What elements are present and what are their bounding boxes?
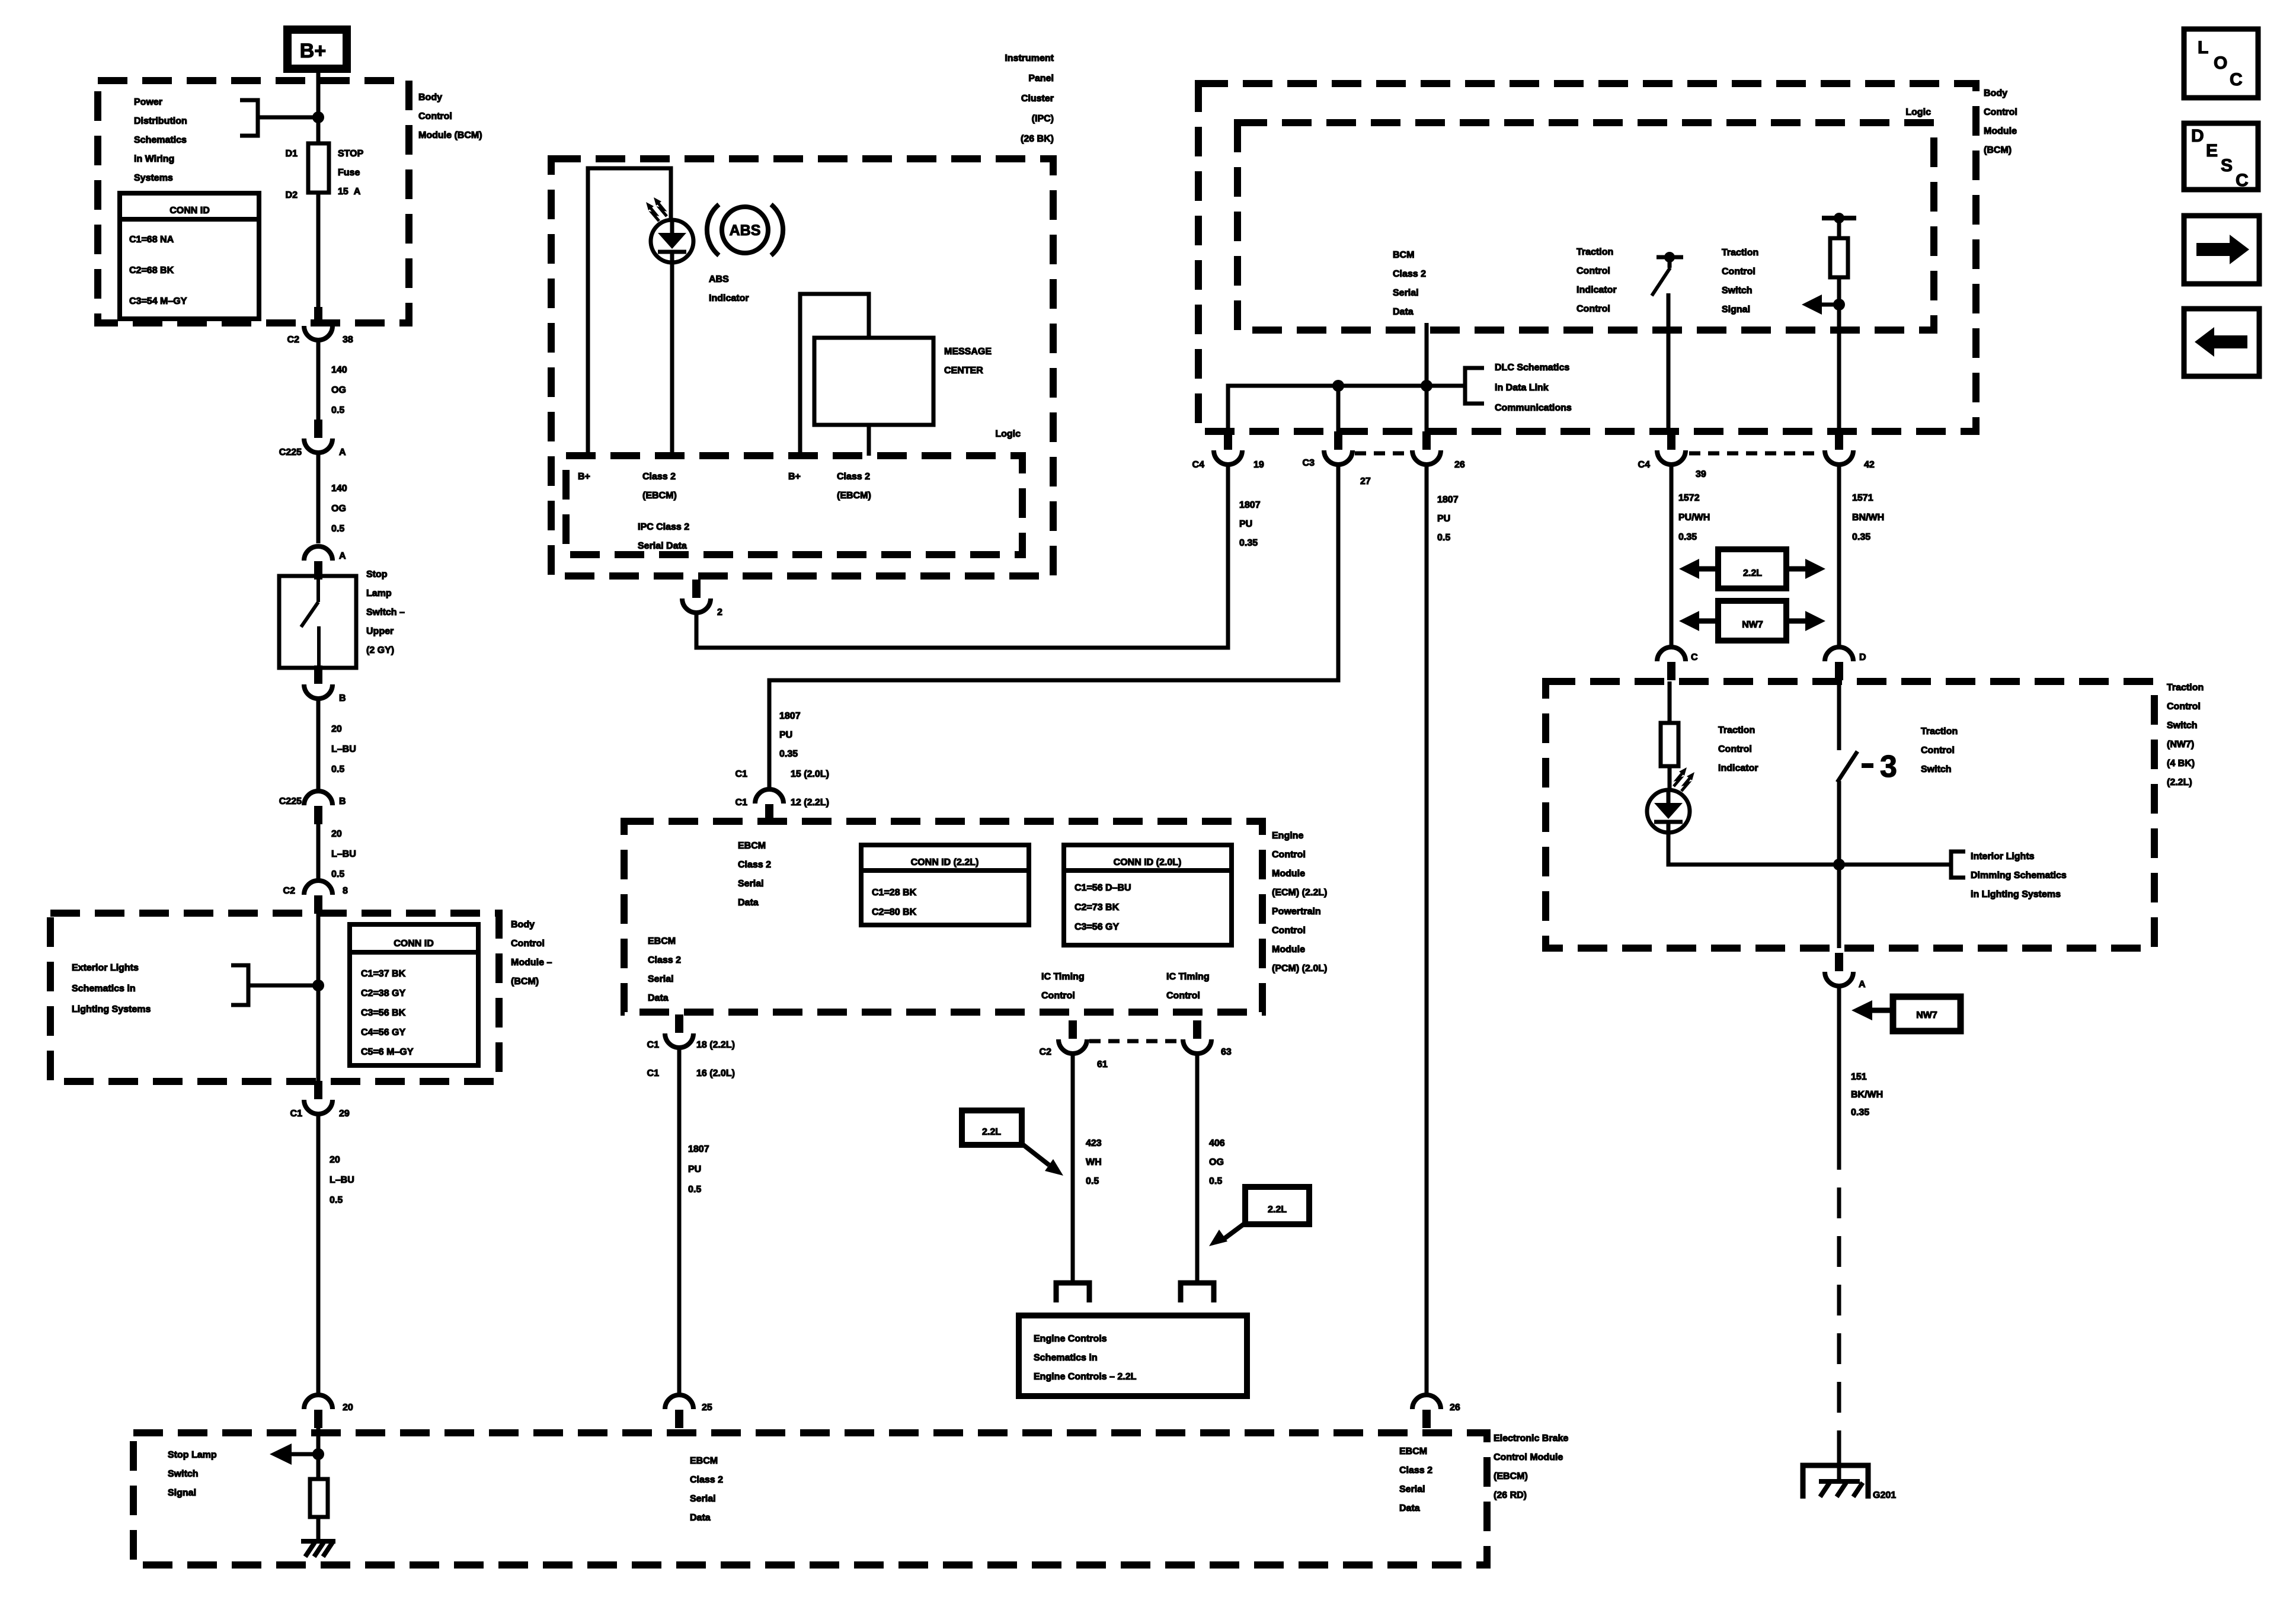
svg-text:EBCM: EBCM [690,1456,718,1466]
svg-text:(EBCM): (EBCM) [642,491,677,501]
svg-text:Lighting Systems: Lighting Systems [72,1004,151,1014]
BCM logic dashed box [1237,123,1934,330]
svg-text:C: C [2230,70,2243,89]
svg-text:C1=68 NA: C1=68 NA [129,235,174,245]
svg-text:Module: Module [1984,126,2017,136]
svg-text:Engine Controls – 2.2L: Engine Controls – 2.2L [1034,1372,1137,1382]
svg-text:Logic: Logic [995,429,1021,439]
svg-text:L–BU: L–BU [330,1175,354,1185]
svg-text:Engine Controls: Engine Controls [1034,1334,1107,1344]
svg-text:C225: C225 [279,447,302,457]
svg-text:0.35: 0.35 [1678,532,1697,542]
svg-text:Interior Lights: Interior Lights [1971,852,2035,862]
connector C4 pin 39 [1667,431,1675,450]
svg-text:Body: Body [418,92,442,103]
svg-text:Switch: Switch [168,1469,199,1479]
svg-text:Control: Control [1718,744,1752,754]
svg-text:Serial: Serial [1393,288,1419,298]
svg-text:Control: Control [1576,304,1610,314]
svg-text:0.35: 0.35 [1851,1108,1869,1118]
svg-text:C1: C1 [736,798,748,808]
svg-text:CONN ID (2.2L): CONN ID (2.2L) [911,857,979,868]
connector pin 20 at EBCM [314,1410,322,1428]
svg-text:(26 BK): (26 BK) [1021,134,1054,144]
svg-text:O: O [2214,53,2227,73]
svg-text:Module –: Module – [511,958,552,968]
svg-text:Logic: Logic [1905,107,1931,117]
connector pin 63 [1193,1020,1201,1039]
wire 1571 BN/WH 0.35 (pin 42 to D) [1837,465,1841,646]
inline connector dashes 27-26 [1355,452,1411,456]
svg-text:CONN ID (2.0L): CONN ID (2.0L) [1114,857,1182,868]
power symbol B+ [287,30,347,69]
svg-text:18 (2.2L): 18 (2.2L) [696,1040,735,1050]
svg-text:151: 151 [1851,1072,1867,1082]
svg-text:OG: OG [331,504,346,514]
wire 140 OG 0.5 (second segment) [316,453,321,543]
svg-text:in Lighting Systems: in Lighting Systems [1971,889,2061,900]
svg-text:OG: OG [331,385,346,395]
arrow stop lamp switch signal [290,1452,320,1457]
svg-text:EBCM: EBCM [738,841,766,851]
svg-text:Class 2: Class 2 [648,955,681,965]
svg-text:C1: C1 [736,769,748,779]
svg-text:Traction: Traction [1921,726,1958,737]
forward arrow nav box [2184,216,2259,284]
stop lamp switch - upper (2 GY) box [279,576,356,668]
resistor (switch signal pull-up) [1830,238,1848,277]
svg-text:Control: Control [1166,991,1200,1001]
momentary contact symbol [1862,763,1873,768]
inline connector C225 pin B [314,806,322,824]
NW7 flag with arrow [1893,997,1961,1031]
connector C1 pin 29 [314,1081,322,1099]
svg-text:(EBCM): (EBCM) [1494,1471,1528,1481]
inline connector dashes 39-42 [1689,452,1821,456]
svg-text:L–BU: L–BU [331,849,356,859]
wire B+ loop to ABS indicator [588,168,671,456]
wire C into switch box [1668,681,1672,723]
connector C4 pin 19 [1224,431,1232,450]
svg-text:1807: 1807 [1437,495,1459,505]
DLC schematics junction line [1228,386,1465,432]
svg-text:in Data Link: in Data Link [1495,383,1549,393]
2.2L flag (wire 406) [1245,1187,1309,1224]
svg-text:(2 GY): (2 GY) [366,645,394,655]
CONN ID table (BCM exterior lights) [350,924,478,1065]
svg-text:Signal: Signal [168,1488,196,1498]
svg-text:Stop: Stop [366,569,388,580]
terminator wire 406 [1181,1283,1214,1302]
svg-text:D2: D2 [286,190,298,200]
svg-text:B: B [339,796,346,806]
svg-text:Data: Data [648,993,669,1003]
connector pin C [1667,662,1675,680]
wire 1572 PU/WH 0.35 (pin 39 to C) [1670,465,1674,646]
svg-text:Control: Control [2167,702,2201,712]
svg-text:Control: Control [1576,266,1610,276]
node junction (pin 26 wire) [1421,380,1432,392]
wire switch to pin A [1837,781,1841,948]
svg-text:(2.2L): (2.2L) [2167,777,2192,788]
switch blade (stop lamp switch) [301,576,319,668]
svg-text:MESSAGE: MESSAGE [944,347,992,357]
svg-text:A: A [1859,980,1866,990]
svg-text:20: 20 [331,829,342,839]
svg-text:1807: 1807 [1239,500,1261,510]
connector pin 25 at EBCM [675,1410,683,1428]
svg-text:1572: 1572 [1678,493,1700,503]
svg-text:C4=56 GY: C4=56 GY [361,1028,405,1038]
svg-text:Communications: Communications [1495,403,1572,413]
svg-text:BN/WH: BN/WH [1852,513,1884,523]
svg-text:(EBCM): (EBCM) [837,491,871,501]
svg-text:IC Timing: IC Timing [1041,972,1085,982]
connector pin A (traction switch) [1835,953,1843,971]
svg-text:IPC Class 2: IPC Class 2 [638,522,689,532]
Electronic Brake Control Module (EBCM) (26 RD) dashed box [133,1433,1487,1565]
wire IPC serial data to BCM pin 19 [696,465,1228,648]
svg-text:20: 20 [330,1155,340,1165]
svg-text:12 (2.2L): 12 (2.2L) [791,798,829,808]
svg-text:Traction: Traction [2167,683,2204,693]
svg-text:PU: PU [779,730,792,740]
svg-text:0.35: 0.35 [779,749,798,759]
svg-text:0.5: 0.5 [330,1195,343,1205]
svg-text:S: S [2221,156,2233,175]
wire BCM class 2 serial data [1425,323,1429,432]
MESSAGE CENTER box [814,338,933,425]
LOC nav box [2184,29,2258,98]
svg-text:Class 2: Class 2 [738,860,771,870]
svg-text:Schematics: Schematics [134,135,187,145]
wire resistor to ground [316,1517,321,1541]
svg-text:BCM: BCM [1393,250,1414,260]
traction control switch blade [1837,681,1841,750]
svg-text:C2: C2 [287,335,300,345]
svg-text:Electronic Brake: Electronic Brake [1494,1433,1568,1443]
svg-text:Lamp: Lamp [366,588,392,598]
DESC nav box [2184,123,2258,190]
resistor (EBCM stop lamp input) [310,1479,328,1517]
bracket to DLC Schematics [1465,368,1484,404]
svg-text:Traction: Traction [1576,247,1613,257]
node junction stop lamp signal [312,1448,324,1460]
svg-text:C3=56 GY: C3=56 GY [1075,922,1119,932]
terminator wire 423 [1056,1283,1089,1302]
node junction (pin 27 wire) [1332,380,1344,392]
svg-text:B+: B+ [578,472,590,482]
svg-text:ABS: ABS [730,222,761,239]
IPC logic dashed box [566,456,1022,555]
arrow switch signal to logic [1819,303,1839,307]
svg-text:(BCM): (BCM) [511,977,539,987]
svg-text:Switch: Switch [2167,721,2198,731]
svg-text:C2=38 GY: C2=38 GY [361,988,405,998]
svg-text:Class 2: Class 2 [690,1475,723,1485]
svg-text:140: 140 [331,365,347,375]
svg-text:(ECM) (2.2L): (ECM) (2.2L) [1272,888,1327,898]
wire into EBCM stop lamp input [316,1428,321,1479]
svg-text:0.5: 0.5 [1086,1176,1099,1186]
svg-text:2.2L: 2.2L [982,1127,1001,1137]
svg-text:Data: Data [1393,307,1414,317]
Engine Control Module (ECM)(2.2L) / PCM (2.0L) dashed box [624,821,1262,1012]
2.2L applicability flag (double arrow) [1718,549,1786,588]
inline connector dashes 61-63 [1089,1039,1182,1044]
svg-text:Control: Control [511,939,545,949]
svg-text:Stop Lamp: Stop Lamp [168,1450,217,1460]
svg-text:3: 3 [1880,750,1897,784]
inline connector C225 pin A [314,420,322,438]
svg-text:Switch –: Switch – [366,607,405,617]
svg-text:PU/WH: PU/WH [1678,513,1710,523]
wire indicator to interior lights dimming [1668,833,1951,865]
connector C3 pin 27 [1334,431,1342,450]
svg-text:Module: Module [1272,945,1305,955]
svg-text:(PCM) (2.0L): (PCM) (2.0L) [1272,964,1327,974]
svg-text:CENTER: CENTER [944,366,983,376]
svg-text:B+: B+ [788,472,801,482]
svg-text:D: D [2191,126,2204,146]
svg-text:EBCM: EBCM [1399,1446,1427,1457]
svg-text:Traction: Traction [1718,725,1755,735]
connector pin 26 (BCM) [1422,431,1431,450]
wire B+ feed down through fuse [316,73,321,323]
svg-text:39: 39 [1696,469,1706,479]
svg-text:Module: Module [1272,869,1305,879]
wire 1807 PU 0.5 (pin 26) to EBCM pin 26 [1425,465,1429,1394]
svg-text:C3: C3 [1303,458,1315,468]
svg-text:26: 26 [1454,460,1465,470]
svg-text:Switch: Switch [1921,764,1952,774]
svg-text:OG: OG [1209,1157,1224,1167]
svg-text:NW7: NW7 [1916,1010,1937,1020]
svg-text:C1=37 BK: C1=37 BK [361,969,406,979]
bracket to Exterior Lights Schematics [231,965,315,1005]
svg-text:1807: 1807 [688,1144,709,1154]
bracket to Interior Lights Dimming [1951,852,1965,878]
svg-text:0.5: 0.5 [1209,1176,1222,1186]
connector C2 pin 61 [1069,1020,1077,1039]
svg-text:Control Module: Control Module [1494,1452,1563,1462]
svg-text:Control: Control [1921,745,1955,756]
CONN ID (2.0L) table [1064,845,1232,945]
svg-text:63: 63 [1221,1047,1232,1057]
svg-text:A: A [339,447,346,457]
svg-text:Fuse: Fuse [338,168,360,178]
Traction Control Switch (NW7)(4 BK)(2.2L) dashed box [1546,681,2154,948]
svg-text:Serial: Serial [648,974,674,984]
svg-text:0.5: 0.5 [688,1185,701,1195]
svg-text:Body: Body [1984,88,2007,98]
svg-text:Control: Control [418,111,452,121]
svg-text:38: 38 [343,335,353,345]
svg-text:Schematics in: Schematics in [1034,1353,1098,1363]
wire 20 L-BU 0.5 to EBCM [316,1115,321,1394]
svg-text:L: L [2198,38,2208,57]
svg-text:STOP: STOP [338,149,364,159]
svg-text:C225: C225 [279,796,302,806]
svg-text:Exterior Lights: Exterior Lights [72,963,139,973]
svg-text:C4: C4 [1638,460,1651,470]
svg-text:Data: Data [690,1513,711,1523]
svg-text:A: A [339,551,346,561]
node junction at traction switch [1833,859,1845,870]
svg-text:Cluster: Cluster [1021,94,1054,104]
svg-text:CONN ID: CONN ID [170,206,210,216]
Engine Controls Schematics reference box [1019,1315,1247,1396]
svg-text:Systems: Systems [134,173,173,183]
svg-text:Indicator: Indicator [1718,763,1758,773]
svg-text:Panel: Panel [1028,73,1054,84]
svg-text:C2=68 BK: C2=68 BK [129,265,174,276]
svg-text:42: 42 [1864,460,1875,470]
node junction switch signal [1833,299,1845,311]
svg-text:NW7: NW7 [1742,620,1763,630]
wire 151 BK/WH 0.35 [1837,986,1841,1139]
svg-text:Serial: Serial [738,879,764,889]
connector pin 26 at EBCM [1422,1410,1431,1428]
svg-text:C: C [1691,652,1698,662]
svg-text:Instrument: Instrument [1005,53,1054,63]
svg-text:Data: Data [1399,1503,1420,1513]
LED ABS indicator [651,220,693,263]
svg-text:(26 RD): (26 RD) [1494,1490,1527,1500]
svg-text:D1: D1 [286,149,298,159]
svg-text:Body: Body [511,920,535,930]
svg-text:61: 61 [1097,1060,1108,1070]
Instrument Panel Cluster dashed box [551,159,1053,576]
svg-text:25: 25 [702,1403,712,1413]
svg-text:20: 20 [331,724,342,734]
svg-text:Data: Data [738,898,759,908]
wire BCM pin 27 to ECM pin 12 [769,465,1338,789]
svg-text:C1=28 BK: C1=28 BK [872,888,917,898]
svg-text:C2=80 BK: C2=80 BK [872,907,917,917]
svg-text:15 A: 15 A [338,187,361,197]
svg-text:Schematics in: Schematics in [72,984,136,994]
svg-text:Class 2: Class 2 [1399,1465,1432,1475]
wire 406 OG 0.5 (IC timing) [1195,1053,1200,1283]
svg-text:16 (2.0L): 16 (2.0L) [696,1068,735,1078]
wire 20 L-BU 0.5 [316,699,321,790]
svg-text:G201: G201 [1873,1490,1896,1500]
resistor (traction control indicator) [1661,723,1678,766]
svg-text:Control: Control [1984,107,2017,117]
svg-text:Power: Power [134,97,162,107]
svg-text:Signal: Signal [1722,305,1750,315]
back arrow nav box [2184,309,2259,376]
connector C1 pin 12 (ECM) [765,804,773,822]
svg-text:0.5: 0.5 [331,764,344,774]
svg-text:C: C [2236,171,2249,190]
svg-text:BK/WH: BK/WH [1851,1090,1883,1100]
wire through BCM exterior lights box [316,913,321,1081]
svg-text:B+: B+ [300,40,326,62]
svg-text:C2: C2 [283,886,296,896]
svg-text:2: 2 [717,607,722,617]
svg-text:0.5: 0.5 [1437,533,1450,543]
svg-text:C3=54 M–GY: C3=54 M–GY [129,296,187,306]
svg-text:PU: PU [688,1164,701,1174]
Body Control Module (BCM) dashed box (right) [1198,84,1976,431]
svg-text:Serial: Serial [690,1494,716,1504]
svg-text:2.2L: 2.2L [1743,568,1762,578]
svg-text:19: 19 [1253,460,1264,470]
svg-text:0.35: 0.35 [1852,532,1870,542]
wire 20 L-BU 0.5 (second segment) [316,823,321,880]
svg-text:Class 2: Class 2 [1393,269,1426,279]
svg-text:IC Timing: IC Timing [1166,972,1210,982]
svg-text:DLC Schematics: DLC Schematics [1495,363,1569,373]
svg-text:Traction: Traction [1722,248,1758,258]
svg-text:29: 29 [339,1109,350,1119]
svg-text:Upper: Upper [366,626,394,636]
svg-text:Switch: Switch [1722,286,1753,296]
connector pin 2 (IPC) [692,580,701,598]
svg-text:Indicator: Indicator [709,293,749,303]
dashed ground wire to G201 [1837,1139,1841,1455]
svg-text:PU: PU [1437,514,1450,524]
svg-text:C1: C1 [647,1040,660,1050]
wire 423 WH 0.5 (IC timing) [1071,1053,1075,1283]
svg-text:C2=73 BK: C2=73 BK [1075,902,1120,913]
svg-text:Powertrain: Powertrain [1272,907,1321,917]
ABS telltale symbol [722,207,768,253]
ground (EBCM internal) [301,1539,335,1544]
svg-text:C1=56 D–BU: C1=56 D–BU [1075,883,1131,893]
svg-text:ABS: ABS [709,274,729,284]
LED traction control indicator [1647,790,1690,833]
traction control switch signal pull-up [1822,216,1856,220]
svg-text:(BCM): (BCM) [1984,145,2012,155]
svg-text:Control: Control [1722,267,1755,277]
svg-text:C1: C1 [647,1068,660,1078]
Body Control Module - (BCM) dashed box (exterior lights) [50,913,499,1081]
ground G201 [1803,1465,1868,1499]
svg-text:E: E [2206,141,2218,161]
svg-text:Engine: Engine [1272,831,1303,841]
svg-text:Module (BCM): Module (BCM) [418,130,482,140]
wire B+ to message center [800,294,869,456]
svg-text:406: 406 [1209,1138,1225,1148]
wire 1807 PU 0.5 to EBCM pin 25 [677,1048,682,1394]
NW7 applicability flag (double arrow) [1718,601,1786,641]
wire ABS indicator to logic [670,263,674,456]
svg-text:Class 2: Class 2 [642,472,676,482]
bracket to Power Distribution Schematics [240,100,315,136]
connector pin D [1835,662,1843,680]
wire message center to logic [867,425,871,456]
svg-text:0.35: 0.35 [1239,538,1258,548]
svg-text:EBCM: EBCM [648,936,676,946]
CONN ID (2.2L) table [861,845,1029,925]
svg-text:Indicator: Indicator [1576,285,1617,295]
svg-text:Serial Data: Serial Data [638,541,687,551]
svg-text:Class 2: Class 2 [837,472,870,482]
svg-text:C4: C4 [1192,460,1205,470]
2.2L flag (wire 423) [962,1110,1022,1145]
svg-text:15 (2.0L): 15 (2.0L) [791,769,829,779]
svg-text:in Wiring: in Wiring [134,154,174,164]
connector pin B of stop lamp switch [314,665,322,684]
svg-text:D: D [1859,652,1866,662]
svg-text:27: 27 [1360,476,1371,486]
svg-text:PU: PU [1239,519,1252,529]
svg-text:Serial: Serial [1399,1484,1425,1494]
svg-text:(IPC): (IPC) [1032,114,1054,124]
